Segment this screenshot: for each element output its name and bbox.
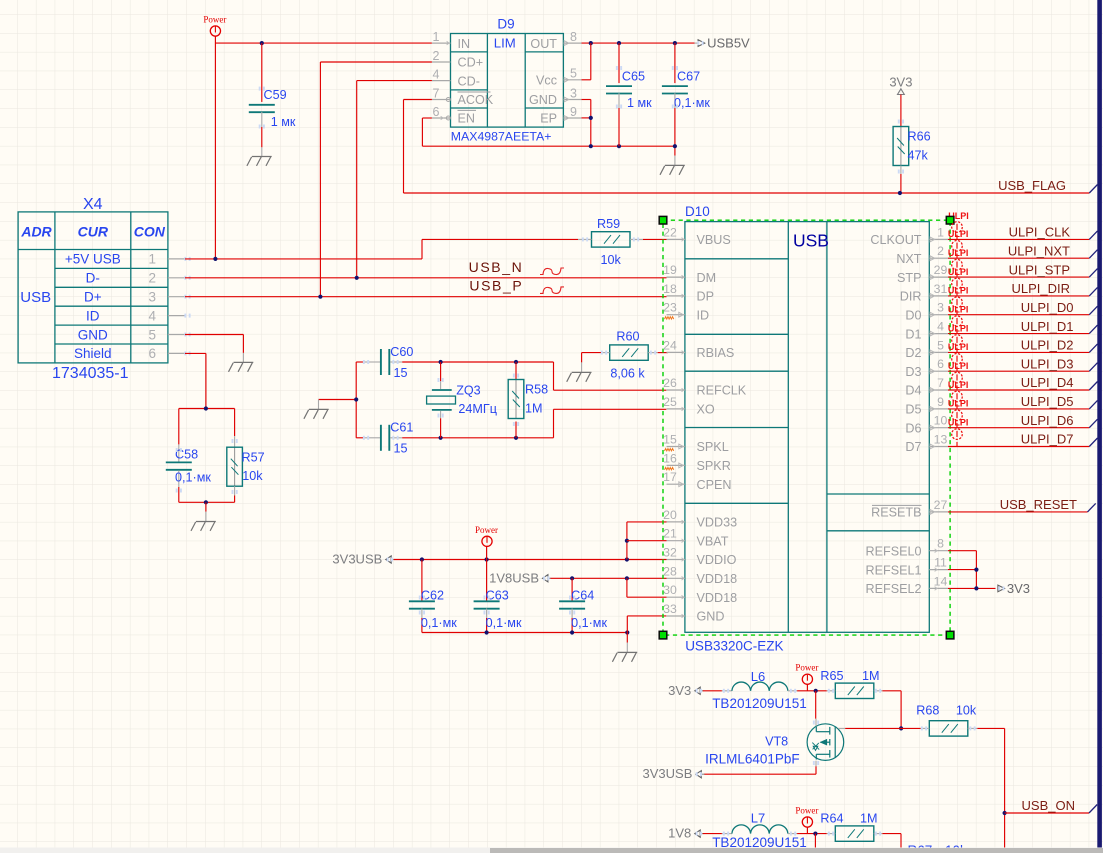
- IC D9 MAX4987AEETA+ body: [451, 34, 564, 128]
- svg-text:ID: ID: [697, 308, 710, 322]
- hotspot marker: [484, 611, 486, 615]
- ground stem (X4 GND): [242, 353, 244, 362]
- junction: [354, 397, 358, 401]
- glyph pin 5 (D10): [930, 350, 935, 355]
- glyph pin 2 (D10): [930, 256, 935, 261]
- wire REFSEL2 to 3V3: [948, 587, 996, 589]
- pin 4 stub (D9 CD-): [432, 80, 451, 82]
- wire 3V3USB rail: [394, 559, 667, 561]
- svg-text:23: 23: [663, 301, 677, 315]
- capacitor C60: [356, 361, 365, 363]
- svg-text:15: 15: [663, 433, 677, 447]
- capacitor C62: [421, 560, 423, 602]
- svg-text:13: 13: [934, 433, 948, 447]
- svg-text:3: 3: [937, 301, 944, 315]
- svg-text:C59: C59: [264, 88, 287, 102]
- wire USB_ON: [1005, 812, 1089, 814]
- port 3V3USB (mid): [386, 556, 391, 563]
- svg-text:ULPI: ULPI: [948, 380, 969, 390]
- svg-text:ACOK: ACOK: [458, 93, 494, 107]
- junction: [589, 144, 593, 148]
- pin 18 stub (D10 DP): [667, 295, 685, 297]
- svg-text:RBIAS: RBIAS: [697, 346, 735, 360]
- glyph pin 10 (D10): [930, 425, 935, 430]
- svg-text:CON: CON: [134, 224, 166, 240]
- diff pair mark USB_P: [540, 287, 564, 294]
- wire XTAL bottom rail: [402, 437, 553, 439]
- svg-text:2: 2: [433, 49, 440, 63]
- svg-text:RESETB: RESETB: [871, 506, 921, 520]
- hotspot marker: [419, 596, 421, 600]
- svg-text:3: 3: [570, 86, 577, 100]
- bus entry ULPI_D2: [1089, 344, 1097, 353]
- wire to REFCLK: [554, 389, 667, 391]
- selection box (D10): [663, 220, 950, 635]
- svg-text:1: 1: [433, 30, 440, 44]
- marker circle ULPI_DIR: [952, 278, 963, 289]
- svg-text:SPKL: SPKL: [697, 440, 729, 454]
- hotspot marker: [723, 689, 725, 693]
- wire ULPI_D1: [948, 333, 1089, 335]
- svg-text:SPKR: SPKR: [697, 459, 731, 473]
- wire to VDD18 second: [627, 596, 667, 598]
- svg-text:ULPI: ULPI: [948, 229, 969, 239]
- wire gate to R68: [838, 727, 845, 729]
- wire +5V USB up to VBUS: [421, 239, 423, 259]
- wire bottom rail to XO corner: [553, 409, 555, 438]
- ground stem (shield): [205, 502, 207, 511]
- IC D10 body: [685, 222, 929, 633]
- svg-text:32: 32: [663, 546, 677, 560]
- svg-text:5: 5: [937, 338, 944, 352]
- glyph pin 25 (D10): [682, 407, 685, 411]
- wire USB_ON vertical: [1004, 728, 1006, 847]
- bubble EN pin: [446, 116, 450, 120]
- ground (VDD rail): [612, 652, 637, 661]
- wire Power to D9 pin1 IN: [215, 42, 432, 44]
- pin 13 stub (D10 D7): [929, 446, 948, 448]
- svg-text:18: 18: [663, 282, 677, 296]
- wire ULPI_NXT: [948, 257, 1089, 259]
- svg-text:ULPI: ULPI: [948, 305, 969, 315]
- glyph pin 6 (D10): [930, 369, 935, 374]
- inductor L6: [703, 690, 722, 692]
- svg-text:CUR: CUR: [78, 224, 109, 240]
- pin 19 stub (D10 DM): [667, 276, 685, 278]
- junction: [204, 406, 208, 410]
- junction: [813, 832, 817, 836]
- wire OUT to USB5V: [582, 42, 695, 44]
- hotspot marker: [438, 414, 440, 418]
- svg-text:27: 27: [934, 498, 948, 512]
- hotspot marker: [723, 832, 725, 836]
- svg-text:D2: D2: [905, 346, 921, 360]
- svg-text:DP: DP: [697, 290, 715, 304]
- capacitor C64: [571, 578, 573, 602]
- pin 20 stub (D10 VDD33): [667, 521, 685, 523]
- pin 24 stub (D10 RBIAS): [667, 351, 685, 353]
- wire REFSEL vertical: [975, 551, 977, 589]
- svg-text:26: 26: [663, 376, 677, 390]
- svg-text:DM: DM: [697, 271, 717, 285]
- svg-text:CD-: CD-: [458, 74, 480, 88]
- svg-text:CPEN: CPEN: [697, 478, 732, 492]
- pin 26 stub (D10 REFCLK): [667, 389, 685, 391]
- resistor R64: [835, 826, 874, 841]
- resistor R65: [835, 683, 874, 698]
- junction: [625, 576, 629, 580]
- junction: [625, 539, 629, 543]
- svg-text:R57: R57: [242, 451, 265, 465]
- svg-text:Vcc: Vcc: [536, 74, 557, 88]
- glyph pin 23 (D10): [679, 312, 684, 317]
- svg-text:ULPI_D7: ULPI_D7: [1021, 432, 1074, 447]
- pin 16 stub (D10 SPKR): [667, 464, 685, 466]
- svg-text:GND: GND: [697, 610, 725, 624]
- pin 6 stub (X4): [168, 352, 185, 354]
- hotspot marker: [828, 689, 830, 693]
- junction: [213, 257, 217, 261]
- glyph pin 3: [564, 97, 569, 102]
- glyph pin 24 (D10): [682, 351, 685, 355]
- hotspot marker: [697, 41, 699, 45]
- svg-text:VBAT: VBAT: [697, 534, 729, 548]
- glyph pin 9 (D10): [930, 407, 935, 412]
- svg-text:ULPI_CLK: ULPI_CLK: [1009, 225, 1071, 240]
- svg-text:D6: D6: [905, 421, 921, 435]
- junction: [439, 436, 443, 440]
- wire USB_RESET: [948, 511, 1088, 513]
- junction: [485, 557, 489, 561]
- ground (C65/C67): [660, 165, 685, 174]
- hotspot (X4 pin 2): [184, 276, 186, 280]
- svg-text:R65: R65: [820, 669, 843, 683]
- wire Shield right: [185, 352, 206, 354]
- svg-text:USB: USB: [793, 231, 829, 251]
- bus entry ULPI_D3: [1089, 363, 1097, 372]
- pin 2 stub (D9 CD+): [432, 61, 451, 63]
- junction: [617, 144, 621, 148]
- svg-text:16: 16: [663, 451, 677, 465]
- svg-text:VDD18: VDD18: [697, 572, 738, 586]
- svg-text:IRLML6401PbF: IRLML6401PbF: [705, 751, 800, 766]
- pin 27 stub (D10 RESETB): [929, 511, 948, 513]
- hotspot marker: [828, 832, 830, 836]
- hotspot marker: [616, 105, 618, 109]
- marker circle ULPI_D6: [952, 410, 963, 421]
- hotspot marker: [813, 761, 815, 765]
- svg-text:ULPI: ULPI: [948, 399, 969, 409]
- svg-text:D1: D1: [905, 327, 921, 341]
- wire ULPI_STP: [948, 276, 1089, 278]
- marker circle ULPI_D3: [952, 354, 963, 365]
- svg-text:D9: D9: [497, 16, 514, 31]
- glyph pin 7 (D10): [930, 388, 935, 393]
- bus entry ULPI_D1: [1089, 325, 1097, 334]
- glyph pin 29 (D10): [930, 275, 935, 280]
- wire to GND pin: [627, 615, 666, 617]
- pin 8 stub (D10 REFSEL0): [929, 550, 948, 552]
- hotspot marker: [232, 490, 234, 494]
- junction: [974, 586, 978, 590]
- svg-text:ULPI_NXT: ULPI_NXT: [1008, 243, 1070, 258]
- pin 6 stub (D10 D3): [929, 370, 948, 372]
- svg-text:ADR: ADR: [20, 224, 52, 240]
- svg-text:X4: X4: [83, 196, 103, 213]
- wire C58/R57 bottom rail: [179, 501, 235, 503]
- svg-text:25: 25: [663, 395, 677, 409]
- hotspot marker: [569, 596, 571, 600]
- glyph pin 21 (D10): [682, 539, 685, 543]
- svg-text:17: 17: [663, 470, 677, 484]
- junction: [673, 144, 677, 148]
- wire gate node down (VT9): [814, 834, 816, 848]
- svg-text:CLKOUT: CLKOUT: [870, 233, 921, 247]
- pin 1 stub (D10 CLKOUT): [929, 238, 948, 240]
- resistor R68: [929, 721, 968, 736]
- connector X4 table: [18, 212, 168, 363]
- svg-text:L7: L7: [751, 811, 765, 826]
- svg-text:VDD18: VDD18: [697, 591, 738, 605]
- wire XTAL top rail: [402, 361, 553, 363]
- svg-text:ULPI_D6: ULPI_D6: [1021, 413, 1074, 428]
- hotspot (X4 pin 1): [184, 257, 186, 261]
- junction: [485, 630, 489, 634]
- hotspot marker: [969, 726, 971, 730]
- svg-text:3V3: 3V3: [1007, 581, 1030, 596]
- glyph pin 8: [564, 41, 569, 46]
- svg-text:USB3320C-EZK: USB3320C-EZK: [685, 638, 783, 653]
- wire to VDD33: [627, 521, 667, 523]
- glyph pin 19 (D10): [682, 275, 685, 279]
- glyph pin 17 (D10): [679, 482, 684, 487]
- ground (X4 GND): [229, 362, 254, 371]
- svg-text:14: 14: [934, 574, 948, 588]
- junction: [318, 295, 322, 299]
- svg-text:1M: 1M: [862, 669, 880, 683]
- wire R65 down to gate node: [900, 691, 902, 729]
- svg-text:1: 1: [148, 252, 156, 267]
- svg-text:30: 30: [663, 583, 677, 597]
- svg-text:R68: R68: [916, 704, 939, 718]
- wire GND down to rail: [590, 100, 592, 147]
- svg-text:C60: C60: [390, 345, 413, 359]
- svg-text:Power: Power: [795, 663, 818, 673]
- svg-text:C65: C65: [622, 70, 645, 84]
- port 1V8USB (mid): [543, 575, 548, 582]
- wire crystal ground branch: [319, 399, 357, 401]
- svg-text:8: 8: [570, 30, 577, 44]
- svg-text:10k: 10k: [601, 253, 622, 267]
- hotspot (X4 pin 5): [184, 333, 186, 337]
- wire X4 GND down: [242, 335, 244, 353]
- inversion bar RESETB: [872, 504, 922, 506]
- pin 33 stub (D10 GND): [667, 615, 685, 617]
- pin 3 stub (D10 D0): [929, 314, 948, 316]
- svg-text:2: 2: [937, 244, 944, 258]
- pin 5 stub (D9 Vcc): [563, 79, 581, 81]
- wire power to rail (C63): [486, 547, 488, 560]
- capacitor C65: [618, 43, 620, 83]
- wire R64 right: [882, 833, 901, 835]
- glyph pin 9: [564, 116, 569, 121]
- wire shield node horizontal: [179, 408, 235, 410]
- svg-text:2: 2: [148, 271, 156, 286]
- svg-text:VDD33: VDD33: [697, 516, 738, 530]
- glyph pin 28 (D10): [682, 577, 685, 581]
- power symbol (top left): [210, 26, 220, 36]
- wire VT8 drain down: [815, 766, 817, 774]
- pin 4 stub (D10 D1): [929, 333, 948, 335]
- glyph pin 5: [564, 77, 569, 82]
- svg-text:L6: L6: [751, 669, 765, 684]
- wire EN down: [421, 118, 423, 146]
- glyph pin 14 (D10): [935, 587, 938, 591]
- wire ULPI_D4: [948, 389, 1089, 391]
- svg-text:D-: D-: [86, 271, 100, 286]
- pin 2 stub (X4): [168, 277, 185, 279]
- svg-text:24МГц: 24МГц: [458, 402, 497, 416]
- bus entry ULPI_D7: [1089, 438, 1097, 447]
- power symbol (C63): [482, 536, 492, 546]
- junction: [355, 276, 359, 280]
- junction: [204, 500, 208, 504]
- svg-text:9: 9: [570, 105, 577, 119]
- svg-text:7: 7: [433, 86, 440, 100]
- marker circle ULPI_D0: [952, 297, 963, 308]
- svg-text:3V3: 3V3: [668, 683, 691, 698]
- pin 10 stub (D10 D6): [929, 427, 948, 429]
- junction: [570, 576, 574, 580]
- svg-text:ULPI_STP: ULPI_STP: [1009, 262, 1070, 277]
- wire ULPI_D0: [948, 314, 1089, 316]
- ground (shield): [191, 522, 216, 531]
- svg-text:ULPI_D0: ULPI_D0: [1021, 300, 1074, 315]
- svg-text:8: 8: [937, 537, 944, 551]
- hotspot marker: [790, 689, 792, 693]
- svg-text:ULPI: ULPI: [948, 342, 969, 352]
- junction: [514, 360, 518, 364]
- svg-text:3V3USB: 3V3USB: [643, 766, 693, 781]
- svg-text:D7: D7: [905, 440, 921, 454]
- svg-text:ULPI: ULPI: [948, 323, 969, 333]
- ground (R60): [567, 372, 592, 381]
- svg-text:+5V USB: +5V USB: [65, 252, 121, 267]
- pin 3 stub (X4): [168, 296, 185, 298]
- svg-text:1V8USB: 1V8USB: [489, 570, 539, 585]
- svg-text:CD+: CD+: [458, 56, 484, 70]
- wire Power vertical to +5V row: [214, 36, 216, 259]
- svg-text:0,1·мк: 0,1·мк: [571, 616, 607, 630]
- inductor L7: [703, 833, 722, 835]
- glyph pin 30 (D10): [682, 595, 685, 599]
- inversion bar EN: [458, 109, 477, 111]
- svg-text:5: 5: [570, 67, 577, 81]
- hotspot marker: [633, 237, 635, 241]
- svg-text:15: 15: [394, 442, 408, 456]
- hotspot marker: [582, 237, 584, 241]
- hotspot marker: [259, 87, 261, 91]
- svg-text:R58: R58: [525, 383, 548, 397]
- hotspot marker: [513, 422, 515, 426]
- wire GND pin vertical: [626, 616, 628, 633]
- svg-text:1: 1: [937, 225, 944, 239]
- svg-text:7: 7: [937, 376, 944, 390]
- glyph pin 13 (D10): [930, 444, 935, 449]
- svg-text:D5: D5: [905, 403, 921, 417]
- svg-text:GND: GND: [78, 327, 108, 342]
- capacitor C58: [178, 409, 180, 445]
- marker circle ULPI_D7: [952, 429, 963, 440]
- svg-text:4: 4: [148, 308, 156, 323]
- wire Vcc tie horizontal: [582, 79, 591, 81]
- bus entry ULPI_D5: [1089, 400, 1097, 409]
- svg-text:15: 15: [394, 366, 408, 380]
- pin 3 stub (D9 GND): [563, 99, 581, 101]
- bus entry ULPI_DIR: [1089, 287, 1097, 296]
- pin 2 stub (D10 NXT): [929, 257, 948, 259]
- svg-text:DIR: DIR: [900, 290, 922, 304]
- pin 31 stub (D10 DIR): [929, 295, 948, 297]
- resistor R57: [234, 409, 236, 437]
- pin 11 stub (D10 REFSEL1): [929, 569, 948, 571]
- svg-text:R64: R64: [820, 812, 843, 826]
- glyph pin 4 (D10): [930, 331, 935, 336]
- wire L6 to R65: [797, 690, 827, 692]
- pin 17 stub (D10 CPEN): [667, 483, 685, 485]
- pin 7 stub (D10 D4): [929, 389, 948, 391]
- bus ULPI (vertical): [1097, 0, 1102, 848]
- glyph IN pin: [447, 41, 450, 45]
- hotspot marker: [998, 586, 1000, 590]
- pin 1 stub (X4): [168, 258, 185, 260]
- svg-text:D0: D0: [905, 308, 921, 322]
- glyph pin 22 (D10): [682, 238, 685, 242]
- hotspot (X4 pin 3): [184, 295, 186, 299]
- svg-text:EP: EP: [540, 112, 557, 126]
- svg-text:USB_N: USB_N: [469, 259, 524, 275]
- hotspot marker: [484, 596, 486, 600]
- svg-text:R66: R66: [908, 130, 931, 144]
- port 3V3 (L6): [695, 687, 700, 694]
- svg-text:ULPI_D1: ULPI_D1: [1021, 319, 1074, 334]
- ground stem (C67): [674, 146, 676, 155]
- svg-text:D10: D10: [685, 204, 710, 219]
- svg-text:C61: C61: [390, 421, 413, 435]
- capacitor C63: [486, 560, 488, 602]
- port 3V3USB (VT8): [696, 771, 701, 778]
- svg-text:NXT: NXT: [896, 252, 921, 266]
- power port 3V3 (REFSEL): [998, 585, 1005, 592]
- hotspot marker: [790, 832, 792, 836]
- pin 6 stub (D9 EN): [432, 117, 451, 119]
- wire GND pin3: [582, 99, 591, 101]
- svg-text:REFSEL0: REFSEL0: [866, 544, 922, 558]
- hotspot (X4 pin 6): [184, 351, 186, 355]
- svg-text:USB5V: USB5V: [707, 36, 750, 51]
- svg-text:0,1·мк: 0,1·мк: [421, 616, 457, 630]
- transistor VT8 (IRLML6401PbF): [815, 691, 817, 719]
- wire ULPI_D5: [948, 408, 1089, 410]
- junction: [625, 557, 629, 561]
- wire D+ to DP: [185, 296, 667, 298]
- resistor R60: [610, 345, 649, 360]
- svg-text:ULPI_D5: ULPI_D5: [1021, 394, 1074, 409]
- junction: [260, 41, 264, 45]
- svg-text:10k: 10k: [956, 704, 977, 718]
- pin 30 stub (D10 VDD18): [667, 596, 685, 598]
- svg-text:21: 21: [663, 527, 677, 541]
